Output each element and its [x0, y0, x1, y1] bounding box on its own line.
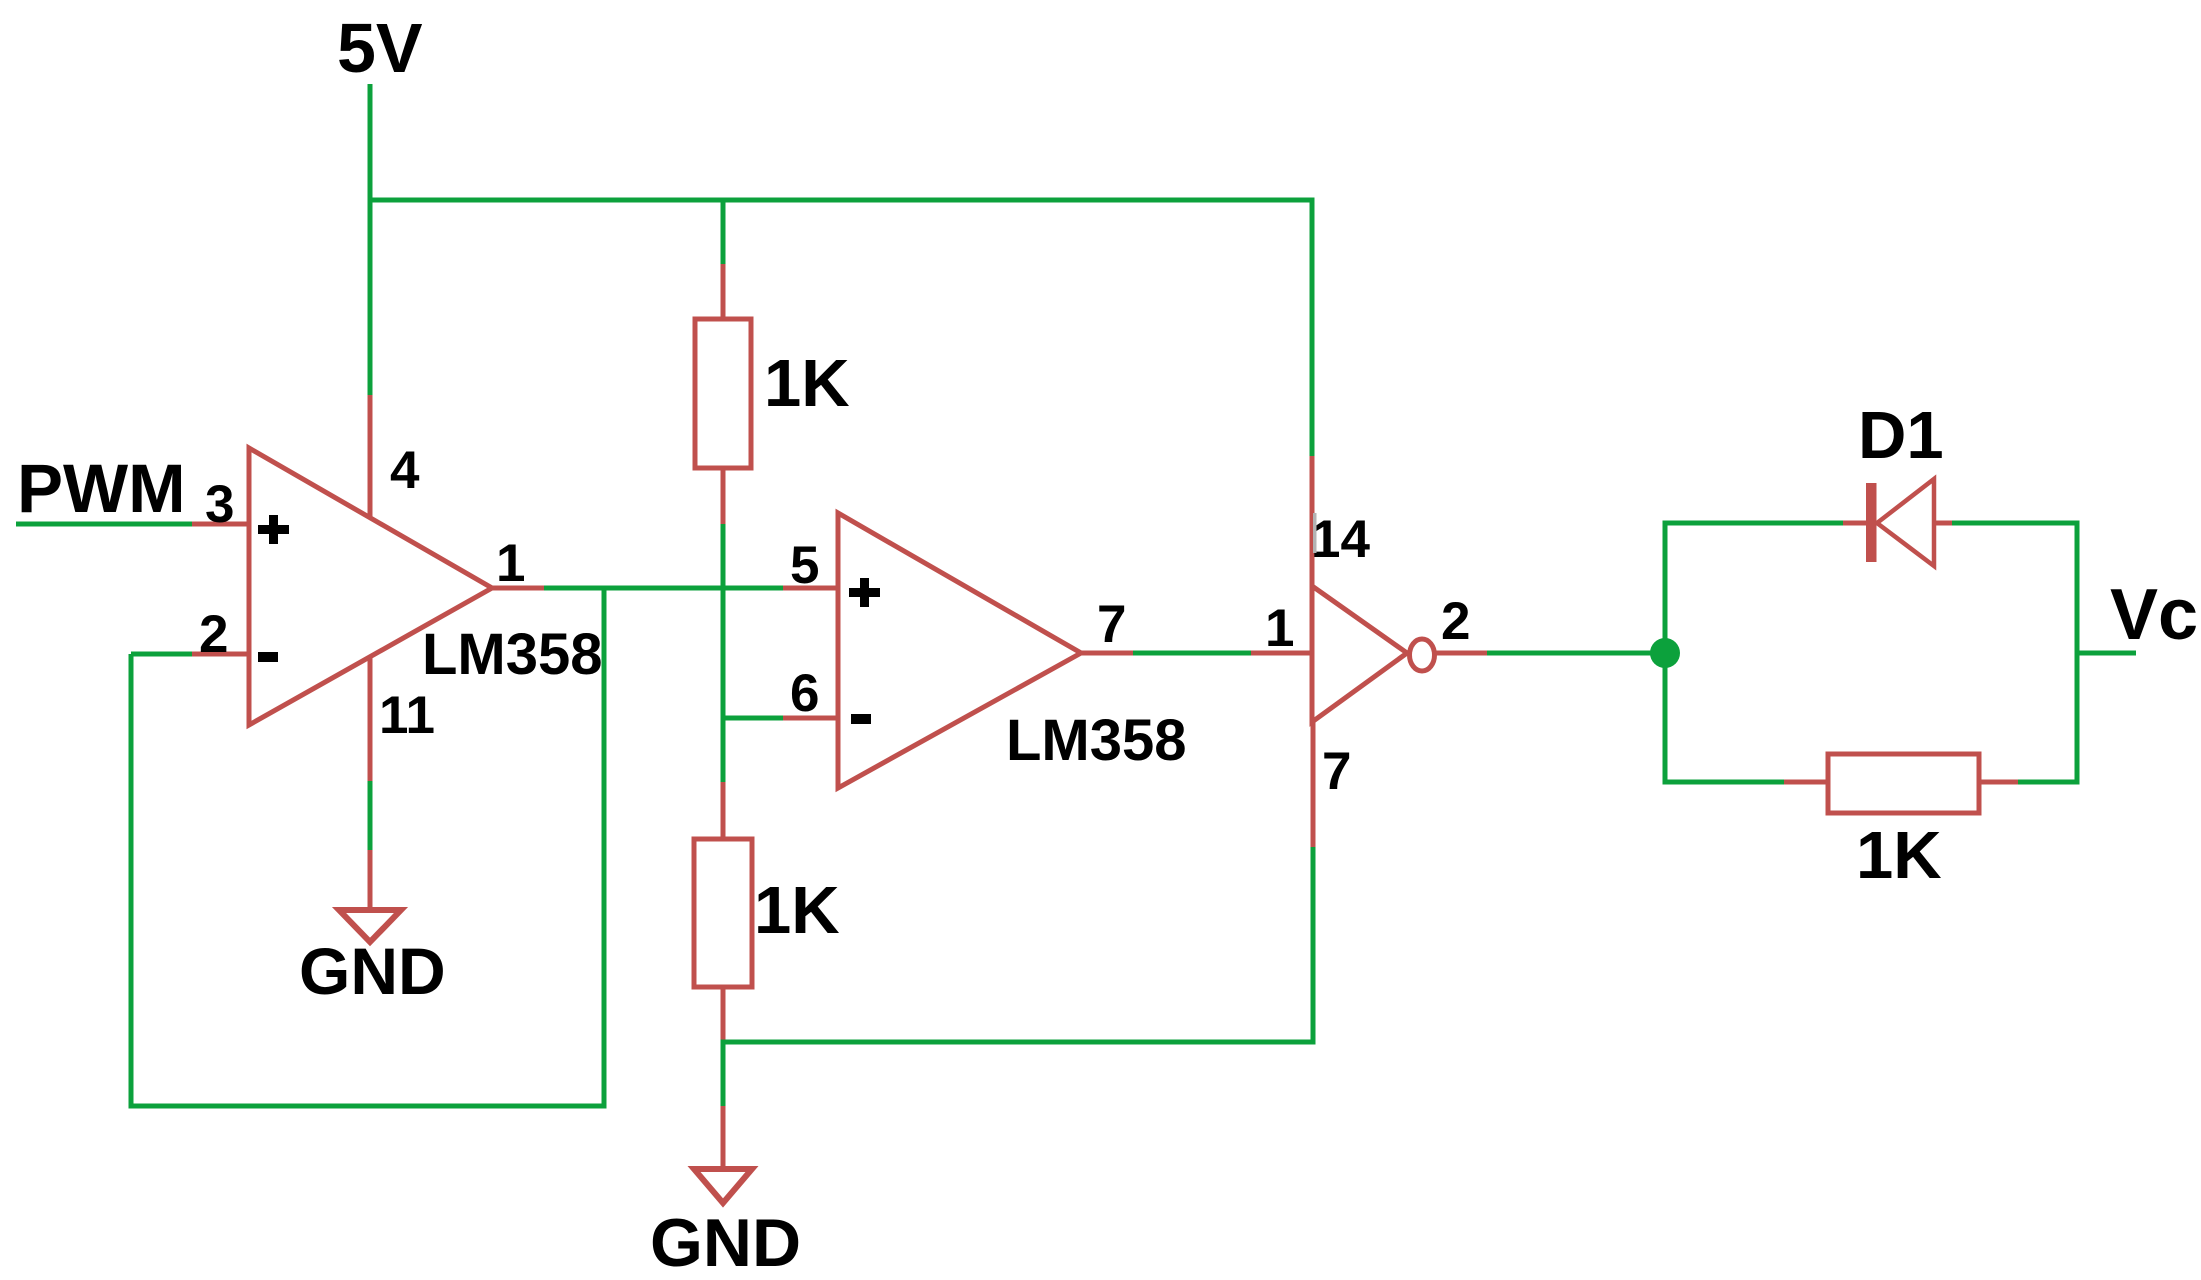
wire R2 top red lead [721, 782, 726, 841]
wire pin11 green segment [368, 781, 373, 852]
wire pin11 red upper [368, 657, 373, 783]
wire diode left red lead [1843, 521, 1868, 526]
junction node dot [1650, 638, 1680, 668]
op-amp U2 triangle [838, 513, 1081, 788]
wire R2 bottom red lead [721, 985, 726, 1044]
wire feedback left vertical [129, 654, 134, 1106]
wire pin2 green segment [131, 652, 194, 657]
wire ground rail horizontal [721, 1040, 1316, 1045]
ground symbol GND2 [694, 1169, 752, 1203]
op-amp U1 minus input marker [258, 652, 278, 662]
wire below R2 green [721, 1042, 726, 1108]
svg-text:PWM: PWM [17, 450, 186, 527]
wire bottom branch left green [1665, 780, 1786, 785]
svg-text:7: 7 [1097, 595, 1126, 654]
wire PWM input green [16, 522, 194, 527]
wire pin4 red segment [368, 395, 373, 518]
wire divider mid vertical green [721, 524, 726, 784]
svg-text:7: 7 [1322, 742, 1351, 801]
wire pin6 red segment [783, 716, 838, 721]
wire right branch vertical [2075, 523, 2080, 785]
svg-text:2: 2 [199, 605, 228, 664]
wire R3 right red lead [1977, 780, 2020, 785]
svg-text:5: 5 [790, 536, 819, 595]
wire bottom branch right green [2018, 780, 2077, 785]
wire inverter input red segment [1251, 651, 1312, 656]
svg-text:1K: 1K [1856, 818, 1942, 893]
svg-text:14: 14 [1311, 510, 1370, 569]
svg-text:1: 1 [1265, 599, 1294, 658]
svg-text:1: 1 [496, 534, 525, 593]
wire pin11 red lower [368, 850, 373, 910]
wire right vertical rail to inverter pin 14 [1310, 200, 1315, 458]
svg-text:GND: GND [299, 934, 446, 1008]
svg-text:LM358: LM358 [1006, 708, 1187, 773]
svg-text:3: 3 [205, 475, 234, 534]
svg-text:LM358: LM358 [422, 622, 603, 687]
diode D1 cathode bar [1866, 483, 1877, 562]
svg-text:6: 6 [790, 664, 819, 723]
artifact grey tick [1313, 513, 1317, 553]
svg-text:5V: 5V [337, 9, 423, 87]
wire diode right red lead [1934, 521, 1954, 526]
op-amp U1 plus input marker [258, 525, 289, 534]
wire op1 output red segment [490, 586, 546, 591]
wire pin6 green segment [721, 716, 786, 721]
wire top branch right green [1952, 521, 2080, 526]
diode D1 triangle [1877, 479, 1934, 566]
op-amp U2 minus input marker [851, 714, 871, 724]
resistor R1 body [695, 319, 751, 468]
op-amp U1 triangle [249, 448, 492, 725]
wire R1 top lead [721, 264, 726, 321]
svg-text:D1: D1 [1858, 398, 1944, 473]
wire top branch left green [1663, 521, 1846, 526]
inverter U3 triangle [1312, 586, 1407, 722]
wire pin5 red segment [783, 586, 838, 591]
wire inverter output green segment [1487, 651, 1665, 656]
inverter U3 output bubble [1410, 639, 1435, 671]
resistor R3 body [1828, 754, 1979, 813]
wire inverter pin14 red vertical [1310, 456, 1315, 588]
wire pin3 red segment [192, 522, 249, 527]
wire Vc stub [2077, 651, 2136, 656]
wire top power rail horizontal [368, 198, 1315, 203]
resistor R2 body [694, 839, 752, 987]
svg-text:1K: 1K [754, 873, 840, 948]
ground symbol GND1 [339, 910, 401, 942]
wire op2 output green segment [1133, 651, 1253, 656]
svg-text:4: 4 [390, 441, 420, 500]
wire inverter output red segment [1436, 651, 1489, 656]
wire GND2 red lead [721, 1106, 726, 1168]
wire feedback tap vertical [602, 588, 607, 1109]
svg-text:2: 2 [1441, 592, 1470, 651]
wire branch down to resistor R1 [721, 200, 726, 266]
wire ground rail right vertical green [1311, 847, 1316, 1042]
wire pin2 red segment [192, 652, 249, 657]
svg-text:GND: GND [650, 1205, 801, 1280]
wire feedback bottom horizontal [129, 1104, 607, 1109]
svg-text:1K: 1K [764, 346, 850, 421]
wire inverter pin7 red vertical [1311, 722, 1316, 849]
wire op1 output green segment [544, 586, 785, 591]
wire 5V vertical drop [368, 84, 373, 397]
wire R1 bottom lead [721, 468, 726, 526]
svg-text:11: 11 [379, 686, 435, 745]
wire op2 output red segment [1079, 651, 1135, 656]
svg-text:Vc: Vc [2110, 575, 2198, 655]
wire junction vertical [1663, 523, 1668, 785]
op-amp U2 plus input marker [849, 588, 880, 597]
wire R3 left red lead [1784, 780, 1830, 785]
